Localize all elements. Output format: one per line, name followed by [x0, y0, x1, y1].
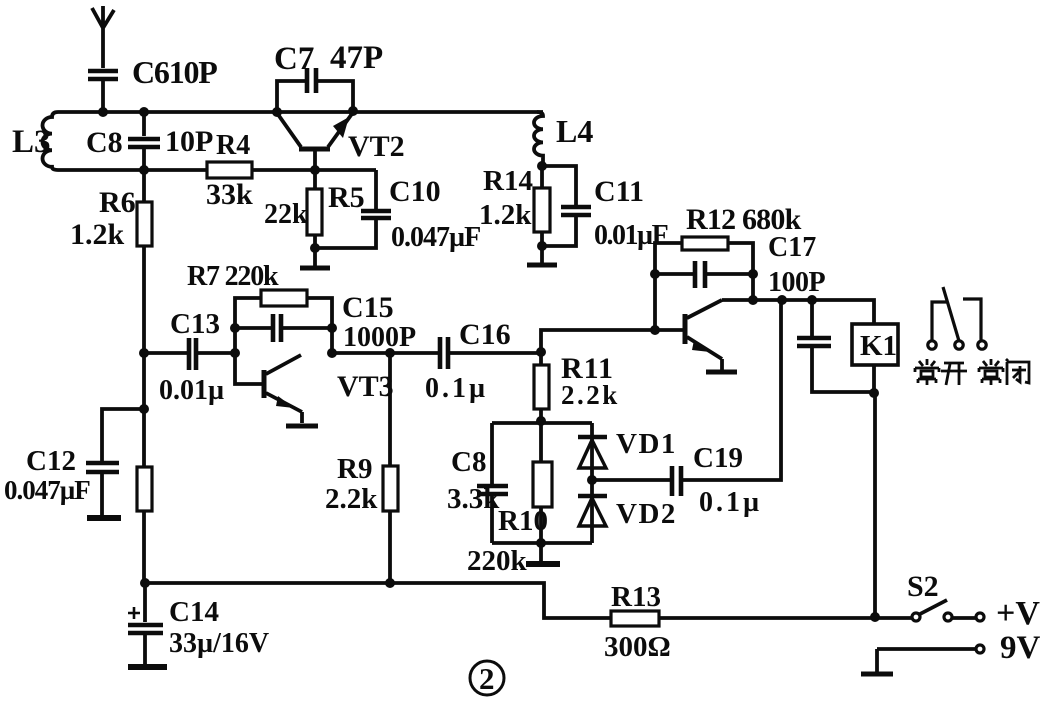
- svg-text:2.2k: 2.2k: [561, 380, 620, 410]
- svg-text:C17: C17: [768, 232, 816, 263]
- svg-text:100P: 100P: [768, 267, 826, 298]
- svg-text:C7: C7: [274, 41, 314, 77]
- svg-text:1000P: 1000P: [343, 322, 416, 353]
- svg-text:C16: C16: [459, 318, 511, 351]
- svg-text:C8: C8: [451, 446, 486, 478]
- svg-text:R14: R14: [483, 165, 533, 197]
- svg-text:VT3: VT3: [337, 370, 394, 403]
- svg-text:0.1µ: 0.1µ: [425, 373, 488, 404]
- svg-text:C12: C12: [26, 445, 76, 477]
- svg-text:0.01µF: 0.01µF: [594, 220, 668, 251]
- svg-text:C19: C19: [693, 442, 743, 474]
- svg-text:S2: S2: [907, 570, 939, 603]
- svg-text:33µ/16V: 33µ/16V: [169, 628, 269, 659]
- svg-text:33k: 33k: [206, 178, 253, 211]
- svg-text:220k: 220k: [467, 545, 528, 577]
- svg-text:C8: C8: [86, 126, 123, 159]
- svg-text:0.01µ: 0.01µ: [159, 375, 224, 406]
- svg-text:R9: R9: [337, 453, 372, 485]
- svg-text:0.1µ: 0.1µ: [699, 487, 762, 518]
- svg-text:R10: R10: [498, 505, 548, 537]
- svg-text:+V: +V: [996, 595, 1040, 632]
- svg-text:C11: C11: [594, 175, 644, 208]
- svg-text:R4: R4: [216, 130, 250, 161]
- svg-text:2.2k: 2.2k: [325, 483, 378, 515]
- svg-text:C610P: C610P: [132, 54, 217, 90]
- svg-text:10P: 10P: [165, 125, 213, 158]
- svg-text:3.3k: 3.3k: [447, 483, 500, 515]
- svg-text:1.2k: 1.2k: [479, 199, 532, 231]
- svg-text:300Ω: 300Ω: [604, 631, 671, 663]
- svg-text:R13: R13: [611, 581, 661, 613]
- svg-text:L3: L3: [12, 124, 51, 160]
- svg-text:2: 2: [479, 661, 495, 696]
- svg-text:0.047µF: 0.047µF: [391, 222, 480, 253]
- svg-text:VT2: VT2: [348, 130, 405, 163]
- svg-text:L4: L4: [556, 113, 593, 149]
- svg-text:1.2k: 1.2k: [70, 218, 125, 251]
- svg-text:47P: 47P: [330, 40, 383, 76]
- svg-text:9V: 9V: [1000, 630, 1041, 666]
- svg-text:0.047µF: 0.047µF: [4, 475, 90, 505]
- svg-text:C10: C10: [389, 175, 441, 208]
- svg-text:22k: 22k: [264, 199, 308, 230]
- svg-text:VD1: VD1: [616, 428, 677, 460]
- svg-text:C14: C14: [169, 596, 219, 628]
- svg-text:C15: C15: [342, 291, 394, 324]
- svg-text:R6: R6: [99, 186, 136, 219]
- svg-text:R7 220k: R7 220k: [187, 261, 279, 292]
- svg-text:K1: K1: [860, 330, 897, 362]
- svg-text:VD2: VD2: [616, 498, 677, 530]
- svg-text:R5: R5: [328, 181, 365, 214]
- svg-text:C13: C13: [170, 308, 220, 340]
